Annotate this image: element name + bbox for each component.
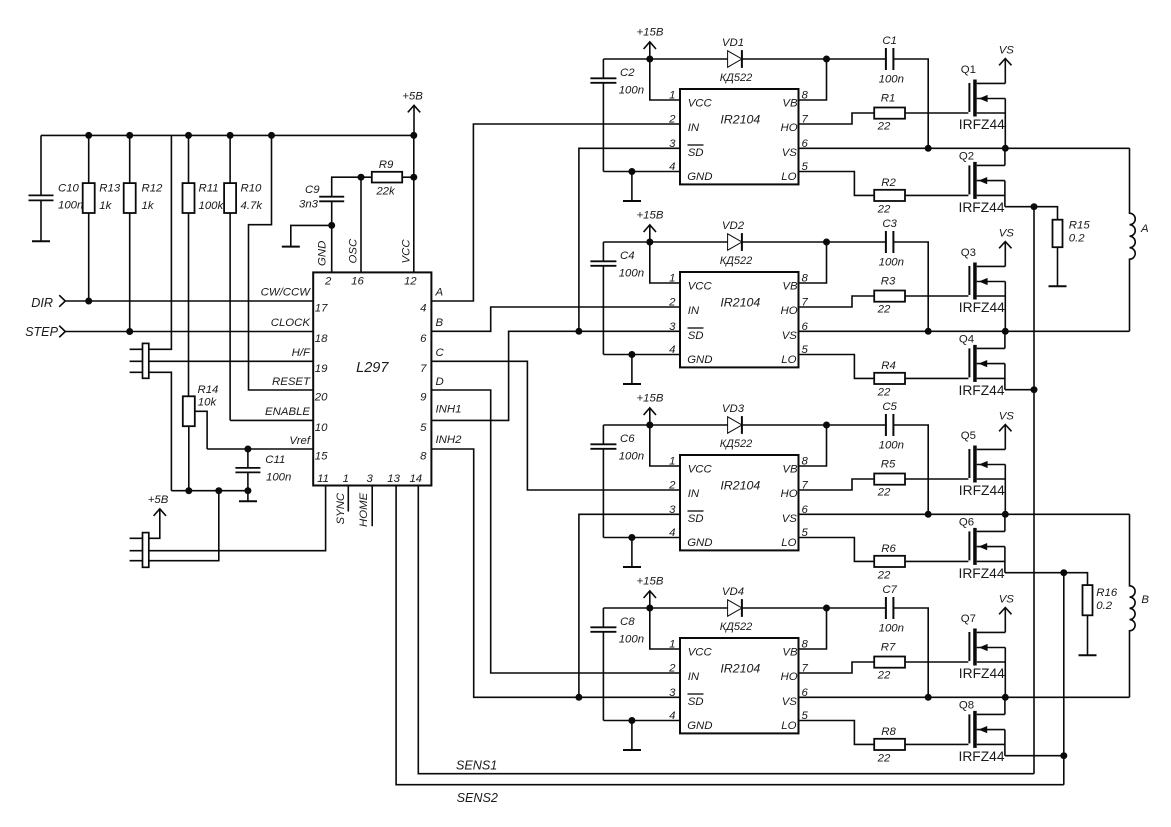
- svg-text:11: 11: [317, 473, 329, 485]
- svg-text:VCC: VCC: [688, 647, 713, 659]
- svg-text:D: D: [436, 376, 444, 388]
- svg-text:18: 18: [315, 333, 328, 345]
- svg-text:CLOCK: CLOCK: [271, 317, 312, 329]
- svg-text:GND: GND: [687, 354, 712, 366]
- wire OSC pin 16: [360, 177, 362, 272]
- power +15B block 3: [637, 393, 664, 425]
- svg-text:КД522: КД522: [720, 438, 753, 450]
- svg-text:IN: IN: [688, 122, 700, 134]
- svg-text:0.2: 0.2: [1096, 600, 1112, 612]
- svg-text:2: 2: [668, 663, 676, 675]
- svg-text:OSC: OSC: [348, 238, 360, 263]
- capacitor C1: [879, 35, 904, 85]
- svg-text:КД522: КД522: [720, 72, 753, 84]
- svg-text:A: A: [435, 287, 444, 299]
- transistor Q1 IRFZ44: [959, 64, 1006, 148]
- svg-text:IRFZ44: IRFZ44: [959, 383, 1005, 398]
- wire VS node bridge B (Q5/Q6): [799, 511, 1130, 518]
- svg-text:VS: VS: [999, 45, 1015, 57]
- wire SENS1 net (pin 14): [418, 486, 1034, 774]
- svg-text:IN: IN: [688, 305, 700, 317]
- IC U1 L297 stepper controller: [261, 238, 462, 527]
- svg-text:13: 13: [387, 473, 400, 485]
- wire HO block 2: [799, 296, 875, 307]
- wire source node bridge A (to R15/SENS1): [1005, 203, 1058, 220]
- svg-text:22: 22: [877, 486, 891, 498]
- svg-text:2: 2: [668, 480, 676, 492]
- svg-text:GND: GND: [316, 241, 328, 266]
- power +5B (top): [402, 91, 423, 136]
- svg-text:VS: VS: [999, 228, 1015, 240]
- diode VD2 КД522: [720, 220, 753, 267]
- svg-text:3: 3: [669, 687, 676, 699]
- wire SD net bridge A: [579, 148, 680, 331]
- svg-text:B: B: [436, 317, 444, 329]
- wire LO block 3: [799, 538, 875, 562]
- svg-text:R2: R2: [881, 177, 896, 189]
- svg-text:100n: 100n: [619, 268, 644, 280]
- svg-text:100n: 100n: [879, 439, 904, 451]
- svg-text:100n: 100n: [619, 85, 644, 97]
- wire VB pin 8 block 2: [799, 242, 827, 283]
- svg-text:7: 7: [420, 363, 427, 375]
- svg-text:100n: 100n: [619, 451, 644, 463]
- svg-text:A: A: [1140, 223, 1149, 235]
- wire ground rail (Vref area): [171, 487, 251, 494]
- svg-text:IRFZ44: IRFZ44: [959, 200, 1005, 215]
- wire VS node bridge B (Q7/Q8): [799, 694, 1130, 701]
- svg-text:Q5: Q5: [961, 430, 976, 442]
- svg-text:3n3: 3n3: [299, 199, 319, 211]
- svg-text:IN: IN: [688, 488, 700, 500]
- svg-text:SYNC: SYNC: [335, 492, 347, 524]
- svg-text:4: 4: [669, 344, 675, 356]
- svg-text:22k: 22k: [375, 185, 396, 197]
- svg-text:2: 2: [668, 297, 676, 309]
- capacitor C11: [235, 449, 291, 491]
- wire HOME pin 3 stub: [371, 486, 373, 527]
- wire H/F jumper upper stub to +5V: [130, 135, 172, 349]
- power VS at Q1: [999, 45, 1015, 84]
- svg-text:R3: R3: [881, 276, 896, 288]
- svg-text:IR2104: IR2104: [720, 478, 760, 492]
- resistor R2 22: [874, 177, 905, 216]
- svg-text:Q8: Q8: [959, 700, 974, 712]
- input port DIR: [31, 295, 65, 310]
- IC IR2104 block 4: [668, 638, 808, 733]
- svg-text:C1: C1: [882, 35, 897, 47]
- wire LO block 2: [799, 355, 875, 379]
- svg-text:CW/CCW: CW/CCW: [261, 287, 312, 299]
- svg-text:VS: VS: [782, 147, 798, 159]
- wire GND pin 4 block 3: [603, 534, 680, 541]
- resistor R12: [124, 135, 163, 331]
- wire RESET net: [249, 135, 314, 390]
- svg-text:4: 4: [669, 710, 675, 722]
- diode VD1 КД522: [720, 37, 753, 84]
- svg-text:14: 14: [409, 473, 422, 485]
- svg-text:VS: VS: [782, 330, 798, 342]
- svg-text:LO: LO: [781, 720, 796, 732]
- svg-text:22: 22: [877, 303, 891, 315]
- svg-text:R13: R13: [99, 183, 121, 195]
- capacitor C8: [590, 608, 644, 721]
- wire VB pin 8 block 1: [799, 59, 827, 100]
- wire GND pin 4 block 2: [603, 351, 680, 358]
- svg-text:3: 3: [367, 473, 374, 485]
- svg-text:1: 1: [669, 90, 675, 102]
- svg-text:LO: LO: [781, 537, 796, 549]
- wire gate Q6: [905, 560, 968, 562]
- wire DIR to pin 17: [65, 298, 313, 305]
- svg-text:+15B: +15B: [637, 393, 664, 405]
- svg-text:22: 22: [877, 569, 891, 581]
- power VS at Q5: [999, 411, 1015, 450]
- wire VCC pin 1 block 4: [650, 608, 680, 649]
- wire gate Q5: [905, 478, 968, 480]
- svg-text:4.7k: 4.7k: [241, 200, 264, 212]
- svg-text:8: 8: [802, 90, 809, 102]
- svg-text:R15: R15: [1069, 220, 1091, 232]
- capacitor C7: [879, 584, 904, 634]
- svg-text:1k: 1k: [99, 200, 112, 212]
- wire +15V rail block 3: [603, 422, 928, 515]
- svg-text:VB: VB: [782, 281, 798, 293]
- svg-text:Q7: Q7: [961, 613, 976, 625]
- ground terminator of R15: [1049, 285, 1067, 287]
- svg-text:VCC: VCC: [688, 98, 713, 110]
- svg-text:VS: VS: [999, 594, 1015, 606]
- svg-text:IN: IN: [688, 671, 700, 683]
- svg-text:R4: R4: [881, 360, 896, 372]
- svg-text:C4: C4: [620, 250, 635, 262]
- svg-text:100n: 100n: [619, 634, 644, 646]
- svg-text:Vref: Vref: [289, 435, 312, 447]
- svg-text:1: 1: [669, 456, 675, 468]
- svg-text:КД522: КД522: [720, 621, 753, 633]
- svg-text:B: B: [1141, 594, 1149, 606]
- wire GND pin 2: [331, 225, 333, 272]
- svg-text:VD1: VD1: [722, 37, 744, 49]
- svg-text:L297: L297: [356, 360, 389, 376]
- ground terminator of C11: [239, 491, 257, 502]
- svg-text:C9: C9: [305, 184, 320, 196]
- svg-text:C: C: [436, 347, 445, 359]
- wire SD net bridge B: [579, 514, 680, 697]
- transistor Q2 IRFZ44: [959, 148, 1005, 215]
- svg-text:15: 15: [315, 451, 328, 463]
- svg-text:20: 20: [314, 392, 328, 404]
- resistor R15 0.2: [1053, 220, 1091, 287]
- wire phase B net: [431, 307, 680, 331]
- ground stub block 2: [623, 355, 641, 385]
- svg-text:100n: 100n: [58, 200, 83, 212]
- svg-text:10: 10: [315, 422, 328, 434]
- svg-text:C10: C10: [58, 183, 80, 195]
- svg-text:SD: SD: [688, 147, 704, 159]
- resistor R5 22: [874, 459, 905, 499]
- resistor R4 22: [874, 360, 905, 399]
- svg-text:R11: R11: [199, 183, 219, 195]
- svg-text:HOME: HOME: [358, 492, 370, 527]
- wire +15V rail block 2: [603, 239, 928, 332]
- svg-text:R10: R10: [241, 183, 263, 195]
- svg-text:1: 1: [343, 473, 349, 485]
- capacitor C10: [29, 135, 84, 241]
- svg-text:8: 8: [420, 451, 427, 463]
- transistor Q7 IRFZ44: [959, 613, 1006, 697]
- svg-text:SENS2: SENS2: [457, 791, 498, 805]
- svg-text:3: 3: [669, 504, 676, 516]
- svg-text:100n: 100n: [879, 73, 904, 85]
- svg-text:C7: C7: [882, 584, 897, 596]
- wire +5V bus: [41, 132, 417, 139]
- wire H/F to pin 19: [130, 360, 314, 362]
- IC IR2104 block 3: [668, 455, 808, 550]
- transistor Q8 IRFZ44: [959, 697, 1005, 764]
- svg-text:IRFZ44: IRFZ44: [959, 483, 1005, 498]
- svg-text:4: 4: [669, 527, 675, 539]
- power +15B block 1: [637, 27, 664, 59]
- wire VCC pin 12: [413, 135, 415, 272]
- inductor winding B: [1130, 514, 1150, 697]
- resistor R6 22: [874, 543, 905, 582]
- svg-text:Q2: Q2: [959, 151, 974, 163]
- svg-text:LO: LO: [781, 354, 796, 366]
- wire VCC pin 1 block 3: [650, 425, 680, 466]
- svg-text:VS: VS: [999, 411, 1015, 423]
- IC IR2104 block 1: [668, 89, 808, 184]
- wire phase A net: [431, 124, 680, 301]
- svg-text:1: 1: [669, 273, 675, 285]
- svg-text:17: 17: [315, 303, 328, 315]
- wire gate Q8: [905, 743, 968, 745]
- svg-text:+15B: +15B: [637, 576, 664, 588]
- svg-text:VD2: VD2: [722, 220, 745, 232]
- svg-text:22: 22: [877, 203, 891, 215]
- wire VCC pin 1 block 2: [650, 242, 680, 283]
- resistor R16 0.2: [1083, 585, 1118, 655]
- wire source Q8 to SENS2: [1005, 752, 1067, 759]
- svg-text:2: 2: [668, 114, 676, 126]
- svg-text:VS: VS: [782, 696, 798, 708]
- svg-text:+5B: +5B: [402, 91, 423, 103]
- svg-text:8: 8: [802, 639, 809, 651]
- svg-text:R5: R5: [881, 459, 896, 471]
- resistor R3 22: [874, 276, 905, 316]
- svg-text:R16: R16: [1096, 587, 1118, 599]
- power VS at Q3: [999, 228, 1015, 267]
- svg-text:VCC: VCC: [688, 281, 713, 293]
- wire gate Q7: [905, 661, 968, 663]
- svg-text:VCC: VCC: [401, 239, 413, 264]
- svg-text:22: 22: [877, 120, 891, 132]
- svg-text:Q4: Q4: [959, 334, 974, 346]
- svg-text:100n: 100n: [266, 472, 291, 484]
- diode VD3 КД522: [720, 403, 753, 450]
- wire GND pin 4 block 1: [603, 168, 680, 175]
- svg-text:VB: VB: [782, 464, 798, 476]
- diode VD4 КД522: [720, 586, 753, 633]
- ground stub block 1: [623, 172, 641, 202]
- wire source node bridge B (to R16/SENS2): [1005, 569, 1088, 585]
- svg-text:HO: HO: [781, 122, 798, 134]
- input port STEP: [25, 325, 65, 339]
- jumper J2: [143, 533, 149, 568]
- capacitor C9: [299, 177, 361, 225]
- svg-text:4: 4: [420, 303, 426, 315]
- svg-text:GND: GND: [687, 171, 712, 183]
- svg-text:IRFZ44: IRFZ44: [959, 300, 1005, 315]
- transistor Q4 IRFZ44: [959, 331, 1005, 398]
- svg-text:SENS1: SENS1: [456, 758, 497, 772]
- svg-text:10k: 10k: [198, 396, 218, 408]
- svg-text:2: 2: [324, 275, 332, 287]
- resistor R8 22: [874, 726, 905, 765]
- wire VS node bridge A (Q1/Q2): [799, 145, 1130, 152]
- capacitor C6: [590, 425, 644, 538]
- svg-text:1k: 1k: [142, 200, 155, 212]
- svg-text:R8: R8: [881, 726, 896, 738]
- svg-text:100k: 100k: [199, 200, 225, 212]
- svg-text:VD4: VD4: [722, 586, 744, 598]
- IC IR2104 block 2: [668, 272, 808, 367]
- svg-text:Q6: Q6: [959, 517, 974, 529]
- svg-text:1: 1: [669, 639, 675, 651]
- svg-text:R1: R1: [881, 93, 896, 105]
- wire INH1 net: [431, 328, 582, 421]
- svg-text:IRFZ44: IRFZ44: [959, 117, 1005, 132]
- wire SYNC pin 1 stub: [347, 486, 349, 512]
- power +15B block 2: [637, 210, 664, 242]
- svg-text:HO: HO: [781, 488, 798, 500]
- svg-text:22: 22: [877, 669, 891, 681]
- svg-text:GND: GND: [687, 720, 712, 732]
- wire gate Q2: [905, 194, 968, 196]
- wire ENABLE net: [230, 419, 313, 421]
- svg-text:LO: LO: [781, 171, 796, 183]
- wire +15V rail block 1: [603, 56, 928, 149]
- power VS at Q7: [999, 594, 1015, 633]
- wire VB pin 8 block 3: [799, 425, 827, 466]
- wire phase D net: [431, 390, 680, 673]
- svg-text:22: 22: [877, 386, 891, 398]
- ground stub block 4: [623, 721, 641, 751]
- svg-text:IR2104: IR2104: [720, 295, 760, 309]
- ground terminator of R16: [1079, 654, 1097, 656]
- svg-text:HO: HO: [781, 305, 798, 317]
- wire INH2 net: [431, 449, 582, 701]
- svg-text:H/F: H/F: [292, 347, 311, 359]
- svg-text:C3: C3: [882, 218, 897, 230]
- svg-text:16: 16: [351, 275, 364, 287]
- wire jumper J2 to +5B: [130, 509, 160, 538]
- svg-text:VS: VS: [782, 513, 798, 525]
- svg-text:КД522: КД522: [720, 255, 753, 267]
- svg-text:+15B: +15B: [637, 27, 664, 39]
- wire Vref to pin 15: [207, 446, 313, 453]
- svg-text:SD: SD: [688, 513, 704, 525]
- resistor R9: [358, 159, 418, 197]
- resistor R10: [224, 135, 263, 420]
- wire SENS2 net (pin 13): [396, 486, 1064, 806]
- svg-text:INH2: INH2: [436, 434, 463, 446]
- svg-text:19: 19: [315, 363, 328, 375]
- svg-text:IR2104: IR2104: [720, 661, 760, 675]
- jumper J1: [143, 343, 149, 378]
- svg-text:8: 8: [802, 456, 809, 468]
- trimmer R14: [183, 384, 219, 491]
- svg-text:RESET: RESET: [272, 376, 311, 388]
- svg-text:R7: R7: [881, 642, 896, 654]
- svg-text:C11: C11: [265, 454, 285, 466]
- capacitor C2: [590, 59, 644, 172]
- resistor R13: [83, 135, 121, 301]
- svg-text:12: 12: [404, 275, 417, 287]
- capacitor C5: [879, 401, 904, 451]
- power +15B block 4: [637, 576, 664, 608]
- wire +15V rail block 4: [603, 605, 928, 698]
- wire sense line bridge A: [1033, 207, 1035, 774]
- svg-text:C5: C5: [882, 401, 897, 413]
- wire sense line bridge B: [1063, 573, 1065, 785]
- wire LO block 1: [799, 172, 875, 196]
- svg-text:Q1: Q1: [961, 64, 976, 76]
- resistor R7 22: [874, 642, 905, 682]
- svg-text:HO: HO: [781, 671, 798, 683]
- svg-text:R12: R12: [142, 183, 164, 195]
- resistor R11: [183, 135, 225, 396]
- wire VS node bridge A (Q3/Q4): [799, 328, 1130, 335]
- svg-text:+5B: +5B: [148, 494, 169, 506]
- svg-text:3: 3: [669, 138, 676, 150]
- capacitor C4: [590, 242, 644, 355]
- svg-text:VB: VB: [782, 647, 798, 659]
- svg-text:IR2104: IR2104: [720, 112, 760, 126]
- svg-text:R14: R14: [198, 384, 219, 396]
- svg-text:SD: SD: [688, 330, 704, 342]
- svg-text:3: 3: [669, 321, 676, 333]
- wire HO block 1: [799, 113, 875, 124]
- svg-text:GND: GND: [687, 537, 712, 549]
- ground stub block 3: [623, 538, 641, 568]
- wire phase C net: [431, 361, 680, 490]
- inductor winding A: [1130, 148, 1149, 331]
- wire VCC pin 1 block 1: [650, 59, 680, 100]
- svg-text:VB: VB: [782, 98, 798, 110]
- svg-text:100n: 100n: [879, 256, 904, 268]
- wire gate Q1: [905, 112, 968, 114]
- svg-text:8: 8: [802, 273, 809, 285]
- svg-text:VCC: VCC: [688, 464, 713, 476]
- wire STEP to pin 18: [65, 328, 313, 335]
- svg-text:22: 22: [877, 752, 891, 764]
- wire source Q4 to SENS1: [1005, 386, 1038, 393]
- svg-text:C8: C8: [620, 616, 635, 628]
- wire GND pin 4 block 4: [603, 717, 680, 724]
- svg-text:C2: C2: [620, 67, 635, 79]
- svg-text:R6: R6: [881, 543, 896, 555]
- wire pin 11 to jumper J2: [130, 486, 326, 551]
- svg-text:SD: SD: [688, 696, 704, 708]
- svg-text:DIR: DIR: [31, 296, 53, 310]
- transistor Q5 IRFZ44: [959, 430, 1006, 514]
- svg-text:0.2: 0.2: [1069, 233, 1085, 245]
- svg-text:IRFZ44: IRFZ44: [959, 749, 1005, 764]
- svg-text:STEP: STEP: [25, 325, 58, 339]
- wire H/F jumper lower stub to ground: [130, 372, 172, 490]
- svg-text:Q3: Q3: [961, 247, 976, 259]
